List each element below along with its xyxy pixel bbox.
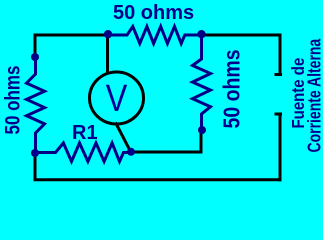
wire left lower segment (34, 152, 37, 181)
source terminal top cap (275, 73, 283, 76)
wire right upper (to source terminal) (279, 34, 282, 76)
wire left upper segment (34, 34, 37, 59)
svg-text:Corriente Alterna: Corriente Alterna (305, 38, 323, 153)
wire top left segment (34, 34, 110, 37)
wire right lower (to source terminal) (279, 114, 282, 181)
voltmeter top lead (106, 35, 109, 74)
node top-right junction (197, 30, 205, 38)
svg-text:50 ohms: 50 ohms (219, 49, 245, 128)
svg-text:R1: R1 (72, 122, 98, 144)
node right resistor bottom (198, 126, 206, 134)
svg-text:V: V (106, 77, 128, 119)
svg-text:50 ohms: 50 ohms (2, 66, 25, 135)
wire bottom-center to right resistor (131, 130, 201, 152)
node left resistor bottom (31, 149, 39, 157)
resistor right 50 ohms (193, 34, 211, 130)
node center bottom junction (127, 148, 135, 156)
node top-left junction (104, 30, 112, 38)
wire bottom (34, 178, 282, 181)
resistor R1 (35, 143, 131, 162)
voltmeter U1 circle (90, 72, 144, 124)
voltmeter bottom lead (116, 123, 131, 152)
wire top right segment (201, 34, 282, 37)
resistor top 50 ohms (108, 27, 202, 44)
node left resistor top (31, 53, 39, 61)
source terminal bottom cap (275, 113, 283, 116)
svg-text:50 ohms: 50 ohms (113, 2, 194, 24)
resistor left 50 ohms (27, 57, 45, 153)
